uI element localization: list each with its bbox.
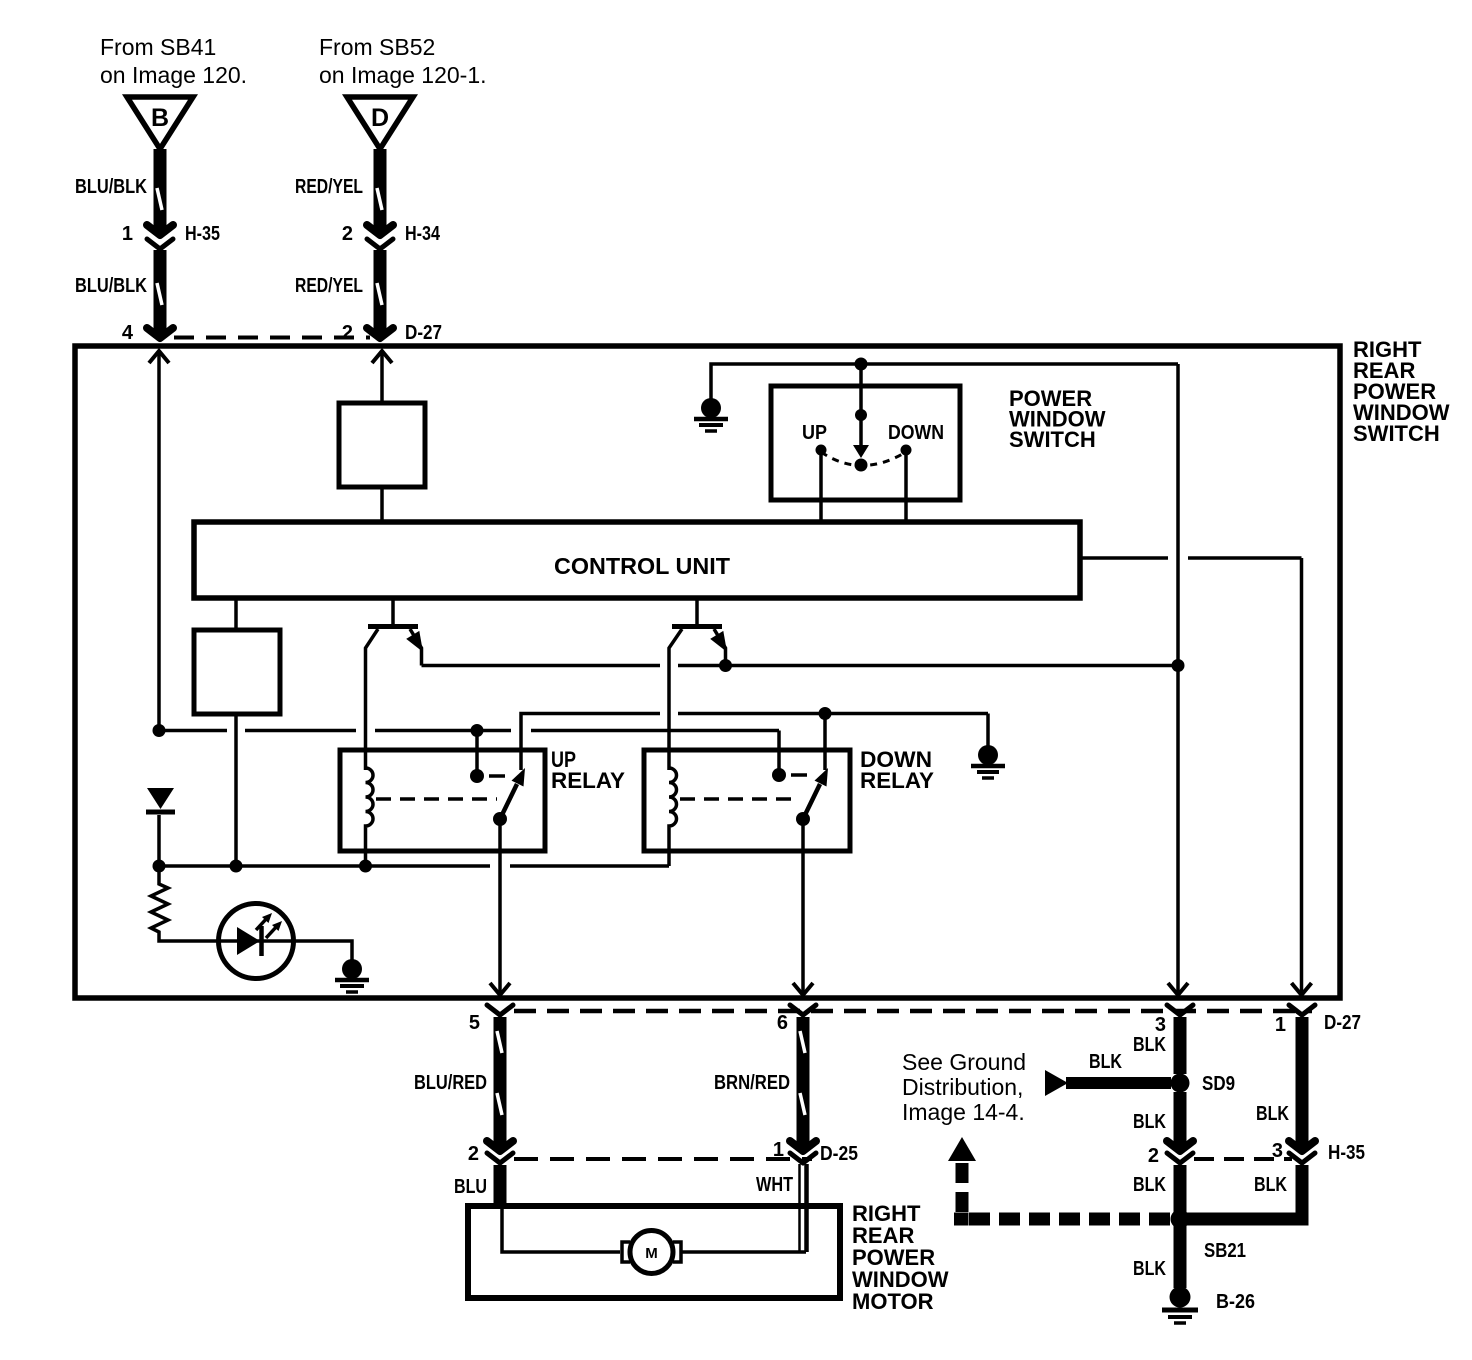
power window switch wiper [853, 364, 869, 472]
wire BLU/BLK upper [75, 149, 162, 230]
svg-text:RELAY: RELAY [860, 768, 934, 793]
SD9 feed arrow from ground distribution [1045, 1051, 1171, 1096]
svg-text:From SB41: From SB41 [100, 34, 216, 60]
UP relay K1 box [340, 747, 625, 851]
connector pin 3 at H-35 [1272, 1140, 1315, 1163]
net wire y=713 (relay NO contacts to ground) [521, 707, 988, 770]
connector H-34 pin 2 [342, 223, 441, 249]
junction above power window switch [855, 358, 868, 371]
svg-text:BLK: BLK [1133, 1034, 1166, 1056]
svg-text:on Image 120.: on Image 120. [100, 62, 247, 88]
connector pin 5 [469, 1005, 513, 1034]
DOWN relay linkage (dashed) [680, 797, 800, 801]
UP relay common wire down [490, 819, 510, 995]
connector pin 4 at D-27 [122, 322, 173, 344]
svg-text:Image 14-4.: Image 14-4. [902, 1099, 1025, 1125]
DOWN relay K2 box [644, 747, 934, 851]
DOWN relay armature [796, 768, 828, 826]
DOWN relay NC contact [772, 768, 807, 782]
svg-text:3: 3 [1272, 1140, 1283, 1162]
dashed connector line H-35 [1194, 1142, 1365, 1164]
node DOWN contact [888, 422, 944, 522]
collector bus wire y=665 [422, 659, 1185, 672]
dashed connector line D-27 (top) [174, 336, 370, 340]
svg-text:SD9: SD9 [1202, 1073, 1235, 1095]
UP relay NC contact [470, 769, 505, 783]
wire down right x=1301.5 [1292, 558, 1312, 995]
svg-text:2: 2 [342, 322, 353, 344]
connector pin 2 at D-25 [468, 1141, 513, 1165]
svg-text:1: 1 [773, 1139, 784, 1161]
wire WHT (hollow) [756, 1164, 808, 1252]
ground G3 [335, 959, 369, 992]
svg-text:BLU: BLU [454, 1176, 487, 1198]
svg-text:Distribution,: Distribution, [902, 1074, 1023, 1100]
wire BLK SB21 to ground [1133, 1226, 1180, 1288]
svg-text:SB21: SB21 [1204, 1240, 1246, 1262]
svg-text:BLK: BLK [1254, 1174, 1287, 1196]
svg-text:BLU/RED: BLU/RED [414, 1072, 487, 1094]
svg-text:D-27: D-27 [1324, 1012, 1361, 1034]
svg-text:RED/YEL: RED/YEL [295, 275, 363, 297]
svg-text:SWITCH: SWITCH [1353, 421, 1440, 446]
svg-text:From SB52: From SB52 [319, 34, 435, 60]
wire BLU [454, 1165, 500, 1206]
wire BLK down to SB21 [1180, 1165, 1302, 1219]
UP relay linkage (dashed) [376, 797, 497, 801]
wire BLU/RED [414, 1017, 502, 1146]
svg-text:BLU/BLK: BLU/BLK [75, 275, 147, 297]
svg-text:4: 4 [122, 322, 134, 344]
LED to ground wire [293, 941, 352, 962]
svg-text:SWITCH: SWITCH [1009, 427, 1096, 452]
svg-text:UP: UP [802, 422, 827, 444]
wire BLK to SD9 [1133, 1017, 1180, 1074]
svg-text:RED/YEL: RED/YEL [295, 176, 363, 198]
net wire y=730 (to relay fixed contacts) [153, 724, 780, 770]
wire RED/YEL upper [295, 149, 382, 230]
note: From SB41 on Image 120. [100, 34, 247, 88]
svg-text:B-26: B-26 [1216, 1291, 1255, 1313]
connector triangle D [347, 97, 413, 149]
svg-text:CONTROL UNIT: CONTROL UNIT [554, 553, 730, 579]
connector H-35 pin 1 [122, 223, 220, 249]
note: See Ground Distribution, Image 14-4. [902, 1049, 1026, 1125]
transistor Q2 [669, 598, 727, 770]
svg-text:MOTOR: MOTOR [852, 1289, 934, 1314]
net wire y=866 (coil commons) [153, 815, 670, 873]
svg-text:BRN/RED: BRN/RED [714, 1072, 790, 1094]
svg-text:D: D [371, 104, 389, 132]
svg-text:H-35: H-35 [185, 223, 220, 245]
UP relay coil [366, 768, 374, 866]
svg-text:6: 6 [777, 1012, 788, 1034]
DOWN relay common wire down [793, 819, 813, 995]
svg-text:BLK: BLK [1133, 1111, 1166, 1133]
svg-text:1: 1 [1275, 1014, 1286, 1036]
svg-text:BLK: BLK [1089, 1051, 1122, 1073]
ground B-26 [1162, 1287, 1255, 1324]
wire RED/YEL lower [295, 250, 382, 333]
wire BLK pin 2 to SB21 [1133, 1165, 1180, 1212]
svg-text:WHT: WHT [756, 1174, 793, 1196]
ground G2 [971, 745, 1005, 778]
svg-text:BLK: BLK [1133, 1174, 1166, 1196]
svg-text:5: 5 [469, 1012, 480, 1034]
LED indicator [219, 904, 294, 979]
entry arrow node 2 [372, 351, 392, 403]
svg-text:BLK: BLK [1256, 1103, 1289, 1125]
DOWN relay coil [669, 768, 677, 866]
UP relay armature [493, 768, 525, 826]
entry arrow node 4 [149, 351, 169, 731]
ground G1 wire [711, 364, 1178, 402]
label RIGHT REAR POWER WINDOW SWITCH [1353, 337, 1450, 446]
svg-text:D-25: D-25 [820, 1143, 858, 1165]
label POWER WINDOW SWITCH [1009, 386, 1106, 452]
right rear power window motor box [468, 1206, 840, 1298]
dashed connector line D-25 [514, 1143, 858, 1165]
svg-text:H-34: H-34 [405, 223, 441, 245]
splice SB21 [1171, 1210, 1247, 1263]
svg-text:2: 2 [1148, 1145, 1159, 1167]
resistor R1 [151, 866, 218, 941]
wire BLU/BLK lower [75, 250, 162, 333]
wire BLK SD9 to pin 2 [1133, 1092, 1180, 1146]
splice SD9 [1171, 1073, 1236, 1095]
svg-text:2: 2 [468, 1143, 479, 1165]
svg-text:M: M [645, 1245, 658, 1262]
connector pin 2 at D-27 [342, 322, 442, 344]
svg-text:on Image 120-1.: on Image 120-1. [319, 62, 487, 88]
wire BLK right column (D-27 pin 1 to H-35 pin 3) [1256, 1017, 1302, 1146]
wire BRN/RED [714, 1017, 805, 1146]
control unit output stub to right [1080, 556, 1302, 560]
svg-text:RELAY: RELAY [551, 768, 625, 793]
motor M1 [622, 1231, 681, 1274]
power window switch box [771, 386, 960, 500]
right rear power window switch outline box [75, 346, 1340, 998]
connector pin 6 [777, 1005, 816, 1034]
dashed BLK branch from SB21 (to other circuit) [948, 1137, 1170, 1226]
control unit U1 [194, 522, 1080, 598]
svg-text:BLK: BLK [1133, 1258, 1166, 1280]
switch dashed throw arc [821, 452, 906, 466]
transistor Q1 [366, 598, 424, 770]
wire down right x=1178 [1168, 364, 1188, 995]
dashed connector line (bottom pins 5 6 3 1) [514, 1009, 1312, 1014]
connector pin 3 (box exit) [1155, 1005, 1193, 1036]
node UP contact [802, 422, 827, 522]
unlabeled block (left, below control unit) [194, 598, 280, 866]
diode D1 [146, 788, 175, 812]
svg-text:D-27: D-27 [405, 322, 442, 344]
svg-text:B: B [151, 104, 169, 132]
svg-text:1: 1 [122, 223, 133, 245]
svg-text:3: 3 [1155, 1014, 1166, 1036]
label RIGHT REAR POWER WINDOW MOTOR [852, 1201, 949, 1314]
connector pin 2 at H-35 [1148, 1141, 1193, 1167]
unlabeled block (top) [339, 403, 425, 522]
connector pin 1 (box exit) [1275, 1005, 1361, 1036]
ground G1 [694, 398, 728, 431]
motor internal wires [502, 1164, 806, 1252]
connector pin 1 at D-25 [773, 1139, 816, 1163]
svg-text:See Ground: See Ground [902, 1049, 1026, 1075]
svg-text:DOWN: DOWN [888, 422, 944, 444]
svg-text:BLU/BLK: BLU/BLK [75, 176, 147, 198]
svg-text:2: 2 [342, 223, 353, 245]
connector triangle B [127, 97, 193, 149]
note: From SB52 on Image 120-1. [319, 34, 487, 88]
svg-text:H-35: H-35 [1328, 1142, 1365, 1164]
